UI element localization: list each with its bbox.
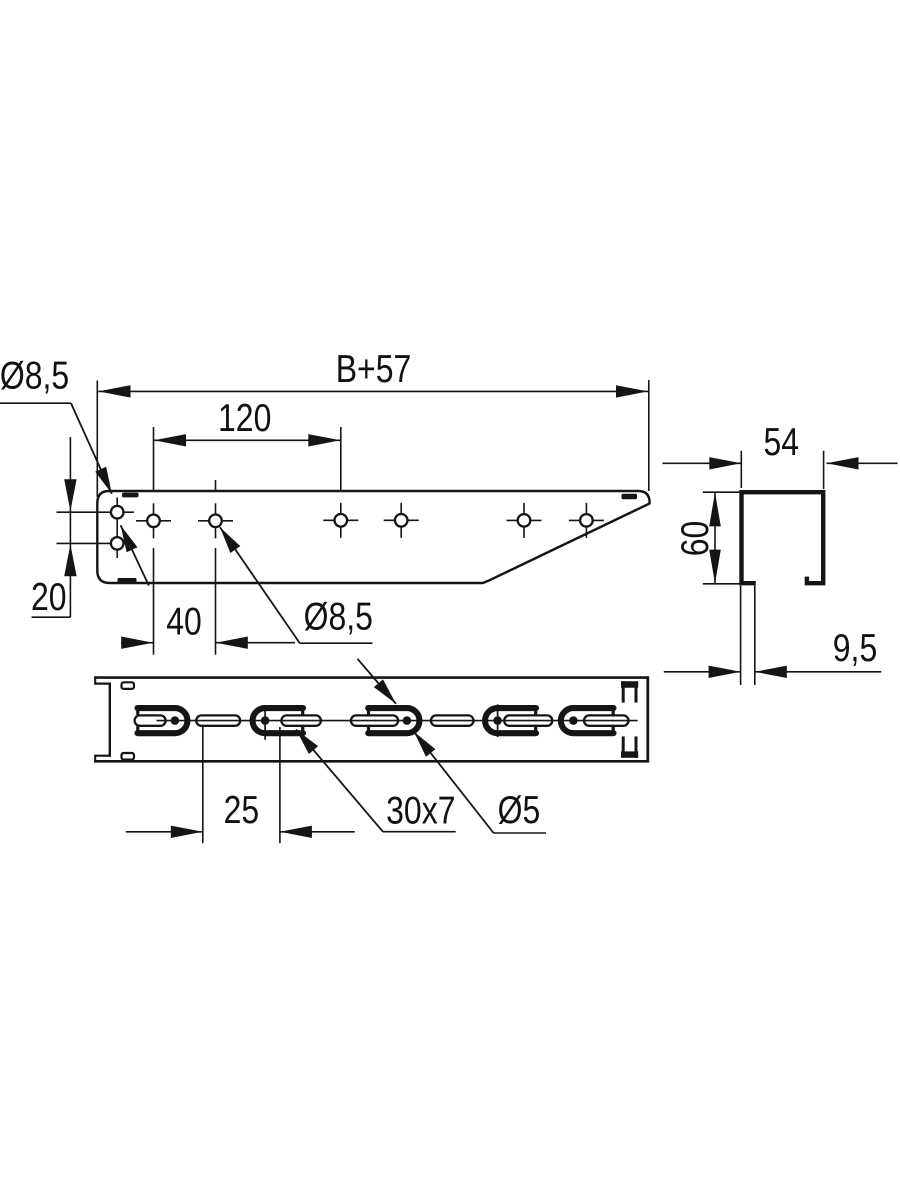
plain 30x7 slot A xyxy=(196,715,240,725)
end profile: C-channel cross-section outline xyxy=(742,492,824,583)
slotted hole unit 1: Ø5 hole (filled) xyxy=(171,716,179,724)
svg-text:20: 20 xyxy=(31,575,67,619)
slotted hole unit 4: upper arm of C-cutout xyxy=(498,705,536,711)
dimension 9,5 left extension line xyxy=(740,586,742,686)
dimension 25 line left tail with arrowhead xyxy=(126,831,203,833)
dimension 120 right arrowhead xyxy=(308,434,340,446)
plain 30x7 slot B xyxy=(431,715,474,725)
hole H6 vertical centerline xyxy=(400,503,402,538)
slotted hole unit 3: lower arm of C-cutout xyxy=(368,730,407,736)
hole left pair shared vertical centerline xyxy=(116,498,118,559)
dimension 54 line left segment with arrowhead xyxy=(663,462,742,464)
slotted hole unit 4: curved slot (C-cutout) around hole xyxy=(485,708,498,733)
hole H6 horizontal centerline xyxy=(384,519,419,521)
extension centerline below hole H3 to 40-dim xyxy=(153,548,155,655)
dimension B+57 right extension line xyxy=(648,380,650,491)
extension centerline below hole H4 to 40-dim xyxy=(215,548,217,655)
svg-text:Ø5: Ø5 xyxy=(498,788,541,832)
top view: strip bottom edge xyxy=(94,760,648,763)
slotted hole unit 2: curved slot (C-cutout) around hole xyxy=(253,708,266,733)
dimension 54 right extension line xyxy=(823,451,825,489)
dimension B+57 right arrowhead xyxy=(616,385,648,397)
hole Ø8,5 left pair lower xyxy=(111,537,124,550)
top view: bottom-left tab cutout xyxy=(122,753,135,760)
slotted hole unit 2: 30x7 slot xyxy=(281,715,321,725)
side view: bracket plate outline xyxy=(97,491,649,583)
slotted hole unit 4: 30x7 slot xyxy=(504,715,552,725)
dimension 60 vertical line xyxy=(714,492,716,584)
dimension 60 lower arrowhead xyxy=(709,550,721,584)
hole H3 circle xyxy=(147,515,160,528)
hole H5 circle xyxy=(335,514,348,527)
side view: bottom-left weld tab xyxy=(118,578,137,583)
svg-text:Ø8,5: Ø8,5 xyxy=(0,353,69,397)
slotted hole unit 2: arm end hooks xyxy=(301,710,304,714)
hole H7 horizontal centerline xyxy=(507,519,542,521)
slotted hole unit 3: arm end hooks xyxy=(367,710,370,714)
dimension 40 line right tail with arrowhead xyxy=(216,642,296,644)
slotted hole unit 5: arm end hooks xyxy=(612,710,615,714)
svg-text:B+57: B+57 xyxy=(336,347,412,391)
dimension 25 right extension line xyxy=(279,727,281,843)
hole H7 vertical centerline xyxy=(523,503,525,538)
slotted hole unit 4: arm end hooks xyxy=(534,710,537,714)
extension centerline above hole H3 (120/40 dim) xyxy=(153,427,155,492)
hole H5 horizontal centerline xyxy=(323,519,358,521)
slotted hole dots overlay xyxy=(171,716,179,724)
svg-text:40: 40 xyxy=(166,600,202,644)
svg-text:25: 25 xyxy=(224,788,260,832)
dimension B+57 line xyxy=(98,390,648,392)
hole Ø8,5 left pair upper xyxy=(111,506,124,519)
hole H3 vertical centerline xyxy=(153,503,155,538)
label Ø5 leader with arrowhead xyxy=(414,732,494,833)
slotted hole unit 5: curved slot (C-cutout) around hole xyxy=(561,708,574,733)
hole H4 circle xyxy=(209,515,222,528)
label 30x7 leader with arrowhead xyxy=(296,730,383,832)
second leader segment pointing at lower-left hole xyxy=(121,525,149,585)
label 30x7 underline xyxy=(383,831,456,833)
hole Ø8,5 left pair upper - horizontal centerline xyxy=(57,511,135,513)
slotted hole unit 3: upper arm of C-cutout xyxy=(368,705,407,711)
slotted hole unit 5: Ø5 hole (filled) xyxy=(569,716,577,724)
slotted hole unit 2: lower arm of C-cutout xyxy=(265,730,303,736)
dimension 120 line xyxy=(154,439,341,441)
slotted hole unit 5: upper arm of C-cutout xyxy=(573,705,613,711)
top view: top-left tab cutout xyxy=(122,682,135,689)
side view: top-left weld tab xyxy=(122,493,139,498)
hole H4 horizontal centerline xyxy=(198,520,233,522)
dimension 40 line left tail with arrowhead xyxy=(121,642,154,644)
slotted hole unit 1: arm end hooks xyxy=(136,710,139,714)
slotted hole unit 3: 30x7 slot xyxy=(351,715,398,725)
label Ø5 underline xyxy=(494,832,546,834)
top view: horizontal centerline through slots xyxy=(157,720,638,722)
label Ø8,5 lower leader to hole H4 xyxy=(220,527,300,643)
dimension 60 upper arrowhead xyxy=(709,492,721,526)
slotted hole unit 1: lower arm of C-cutout xyxy=(138,730,175,736)
label Ø8,5 upper-left underline xyxy=(0,402,71,404)
extension centerline above hole H5 (120 dim) xyxy=(340,427,342,492)
svg-text:120: 120 xyxy=(218,396,271,440)
dimension 25 left extension line xyxy=(202,727,204,844)
top view: vertical centerline at unit 4 xyxy=(497,704,499,737)
top view: strip top edge xyxy=(94,676,648,679)
slotted hole unit 5: lower arm of C-cutout xyxy=(573,730,613,736)
dimension 9,5 line right segment with arrowhead xyxy=(755,671,882,673)
label Ø8,5 leader to slotted hole in top view xyxy=(358,659,397,704)
svg-text:60: 60 xyxy=(673,521,717,557)
extension centerline above hole H4 xyxy=(215,480,217,492)
dimension 20 lower arrowhead xyxy=(64,544,76,576)
hole H3 horizontal centerline xyxy=(136,520,171,522)
top view: right end lower tab (u mark) xyxy=(622,736,625,757)
dimension 120 left arrowhead xyxy=(154,434,186,446)
dimension 20 vertical line xyxy=(69,437,71,617)
dimension 20 upper arrowhead xyxy=(64,479,76,511)
hole H8 horizontal centerline xyxy=(569,519,604,521)
label Ø8,5 leader to upper-left hole xyxy=(71,403,112,494)
svg-text:54: 54 xyxy=(764,420,800,464)
svg-text:Ø8,5: Ø8,5 xyxy=(304,594,373,638)
slotted hole unit 5: 30x7 slot xyxy=(584,715,629,725)
svg-text:9,5: 9,5 xyxy=(833,626,877,670)
hole H8 circle xyxy=(580,514,593,527)
hole H8 vertical centerline xyxy=(585,503,587,538)
hole Ø8,5 left pair lower - horizontal centerline xyxy=(57,542,130,544)
dimension 9,5 line left segment with arrowhead xyxy=(664,671,741,673)
top view: right end upper tab (pi mark) xyxy=(622,681,625,702)
dimension 60 bottom extension tick xyxy=(703,583,740,585)
dimension 20 underline xyxy=(32,616,71,618)
dimension 25 line right tail with arrowhead xyxy=(280,831,355,833)
hole H4 vertical centerline xyxy=(215,503,217,538)
dimension 60 top extension tick xyxy=(703,491,741,493)
side view: top-right weld tab xyxy=(622,494,638,499)
label Ø8,5 lower underline xyxy=(300,642,373,644)
hole H5 vertical centerline xyxy=(340,503,342,538)
slotted hole unit 3: Ø5 hole (filled) xyxy=(403,716,411,724)
dimension 54 line right segment with arrowhead xyxy=(827,462,898,464)
slotted hole unit 4: lower arm of C-cutout xyxy=(498,730,536,736)
dimension 9,5 right extension line xyxy=(754,586,756,686)
dimension B+57 left extension line xyxy=(96,381,98,498)
slotted hole unit 1: upper arm of C-cutout xyxy=(138,705,175,711)
slotted hole unit 1: curved slot (C-cutout) around hole xyxy=(175,708,188,733)
top view: strip right edge xyxy=(646,676,649,762)
hole H6 circle xyxy=(395,514,408,527)
slotted hole unit 3: curved slot (C-cutout) around hole xyxy=(407,708,420,733)
dimension B+57 left arrowhead xyxy=(99,385,131,397)
slotted hole unit 2: Ø5 hole (filled) xyxy=(261,716,269,724)
dimension 54 left extension line xyxy=(740,451,742,488)
svg-text:30x7: 30x7 xyxy=(386,788,455,832)
slotted hole unit 2: upper arm of C-cutout xyxy=(265,705,303,711)
hole H7 circle xyxy=(518,514,531,527)
top view: vertical centerline at unit 2 xyxy=(264,707,266,740)
slotted hole unit 4: Ø5 hole (filled) xyxy=(493,716,501,724)
top view: left end fold (I-beam mark) xyxy=(94,678,96,685)
slotted hole unit 1: 30x7 slot xyxy=(135,715,166,725)
